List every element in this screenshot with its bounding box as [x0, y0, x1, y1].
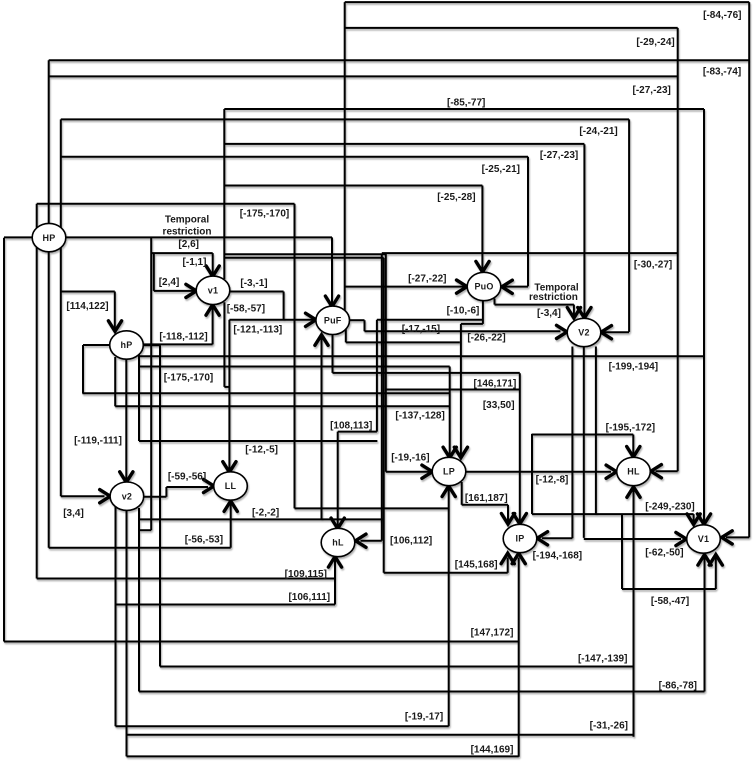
arrow into LL left — [204, 479, 215, 492]
wire v1 out a — [225, 253, 386, 255]
arrow into HL bottom — [627, 487, 640, 498]
node IP — [503, 524, 537, 552]
svg-text:HL: HL — [627, 467, 640, 477]
svg-text:restriction: restriction — [163, 227, 212, 238]
wire rail y60 — [49, 59, 750, 61]
svg-text:[-3,4]: [-3,4] — [537, 308, 561, 319]
wire into IP top b — [519, 373, 521, 522]
node hL — [321, 528, 355, 556]
svg-text:[-12,-5]: [-12,-5] — [245, 445, 278, 456]
svg-text:[-10,-6]: [-10,-6] — [447, 306, 480, 317]
wire to HL top — [532, 434, 633, 436]
svg-text:[-2,-2]: [-2,-2] — [252, 508, 279, 519]
svg-text:[-24,-21]: [-24,-21] — [579, 126, 617, 137]
wire rail y548 — [49, 547, 231, 549]
svg-text:[-118,-112]: [-118,-112] — [159, 332, 207, 343]
wire rail y204 — [37, 203, 295, 205]
svg-text:[-19,-17]: [-19,-17] — [405, 712, 443, 723]
wire into PuO top — [481, 186, 483, 272]
wire hP-bottom down b — [138, 347, 140, 441]
svg-text:PuF: PuF — [324, 316, 342, 326]
wire hP-bottom down — [114, 357, 116, 406]
arrow into LP top a — [443, 447, 456, 458]
wire rail y691 — [139, 691, 705, 693]
wire HP left — [4, 236, 32, 238]
wire into PuO left — [345, 286, 466, 288]
svg-text:[-147,-139]: [-147,-139] — [578, 654, 627, 665]
arrow into V2 top b — [578, 308, 591, 319]
wire LP-IP jog b — [462, 504, 508, 506]
svg-text:[-194,-168]: [-194,-168] — [533, 551, 582, 562]
wire into LP left — [386, 471, 431, 473]
wire HP to hP — [114, 292, 116, 332]
wire PuO-bottom down — [482, 301, 484, 324]
wire hP to LP c — [115, 405, 450, 407]
svg-text:[-29,-24]: [-29,-24] — [636, 37, 674, 48]
wire to IP bottom — [384, 572, 508, 574]
wire rail y578 — [37, 578, 335, 580]
arrow into v2 top — [120, 472, 133, 483]
arrow into HL right — [651, 465, 662, 478]
arrow into v1 top — [206, 266, 219, 277]
svg-text:[-3,-1]: [-3,-1] — [240, 278, 267, 289]
svg-text:[-27,-23]: [-27,-23] — [633, 85, 671, 96]
wire ch528 down — [527, 157, 529, 287]
wire v2-bottom down c — [115, 503, 117, 726]
svg-text:[147,172]: [147,172] — [471, 628, 514, 639]
arrow into hL bottom — [328, 557, 341, 568]
arrow into V1 bottom b — [709, 555, 722, 566]
wire v1 right out — [230, 291, 284, 293]
wire rail y28 — [345, 27, 678, 29]
wire ch48 down — [48, 60, 50, 547]
wire HP to hP h — [61, 291, 115, 293]
node v1 — [196, 276, 230, 304]
wire PuF up — [344, 2, 346, 315]
wire HP to PuF — [66, 236, 332, 238]
arrow into PuF left — [306, 313, 317, 326]
wire to V1 top — [532, 513, 694, 515]
wire ch294 down — [294, 204, 296, 509]
wire ch532 down — [531, 434, 533, 514]
svg-text:[161,187]: [161,187] — [465, 493, 508, 504]
node V1 — [687, 525, 721, 553]
arrow into LP top b — [454, 447, 467, 458]
wire v1 jog — [224, 386, 229, 388]
svg-text:PuO: PuO — [474, 282, 493, 292]
wire into HL right — [656, 470, 678, 472]
wire into IP right — [542, 537, 572, 539]
wire hP to LP a — [139, 366, 450, 368]
wire into LL bottom — [230, 502, 232, 548]
wire v1-bottom down — [223, 302, 225, 387]
wire hP right — [143, 344, 160, 346]
wire ch385 down — [385, 253, 387, 472]
wire rail y735 — [127, 734, 634, 736]
wire into HL top — [632, 435, 634, 456]
svg-text:v2: v2 — [122, 491, 132, 501]
wire into IP top a — [507, 505, 509, 523]
wire into V2 right — [603, 331, 630, 333]
svg-text:[106,111]: [106,111] — [288, 592, 330, 603]
arrow into V2 left — [557, 325, 568, 338]
wire into HL bottom — [633, 488, 635, 737]
wire HP-left down — [3, 238, 5, 642]
wire rail y604 — [116, 604, 335, 606]
node V2 — [567, 318, 601, 346]
svg-text:[-58,-57]: [-58,-57] — [227, 304, 265, 315]
svg-text:restriction: restriction — [529, 292, 578, 303]
svg-text:[-175,-170]: [-175,-170] — [240, 209, 289, 220]
arrow into V2 top a — [567, 308, 580, 319]
wire v2-bottom down b — [138, 508, 140, 692]
wire into V1 left — [584, 538, 681, 540]
wire to hL top — [338, 431, 377, 433]
wire hP to V1 — [139, 355, 704, 357]
arrow into LL bottom — [224, 501, 237, 512]
wire v2 right jog — [144, 496, 167, 498]
wire V2 to V1 — [583, 347, 585, 538]
wire v1 out b — [225, 257, 384, 259]
svg-text:v1: v1 — [208, 286, 218, 296]
wire PuF jog down — [364, 320, 366, 331]
svg-text:[-62,-50]: [-62,-50] — [645, 548, 683, 559]
svg-text:[-27,-23]: [-27,-23] — [540, 150, 578, 161]
wire rail y389 — [386, 389, 520, 391]
arrow into PuO left — [457, 280, 468, 293]
arrow into HL top — [627, 447, 640, 458]
svg-text:[-195,-172]: [-195,-172] — [606, 423, 655, 434]
wire hP left — [83, 344, 110, 346]
node v2 — [110, 482, 144, 510]
wire into v2 left — [61, 495, 105, 497]
arrow into IP bottom a — [501, 553, 514, 564]
wire into v1 top — [212, 253, 214, 275]
arrow into V1 bottom a — [698, 555, 711, 566]
svg-text:[3,4]: [3,4] — [63, 508, 84, 519]
wire into IP bottom a — [507, 558, 509, 573]
svg-text:[146,171]: [146,171] — [473, 379, 516, 390]
wire rail y157 — [61, 156, 528, 158]
wire into LL left — [166, 486, 208, 488]
wire into V1 top a — [693, 514, 695, 523]
wire v1 up — [223, 109, 225, 279]
wire rail y756 — [127, 755, 519, 757]
arrow into PuO top — [476, 261, 489, 272]
svg-text:[-27,-22]: [-27,-22] — [408, 274, 446, 285]
wire ch36 down — [36, 204, 38, 579]
arrow into V1 top a — [687, 514, 700, 525]
wire ch622 down — [621, 514, 623, 589]
svg-text:[-56,-53]: [-56,-53] — [185, 535, 223, 546]
wire into IP bottom b — [518, 558, 520, 757]
wire rail y666 — [160, 666, 634, 668]
arrow into IP bottom b — [512, 553, 525, 564]
svg-text:[-30,-27]: [-30,-27] — [634, 260, 672, 271]
svg-text:[-137,-128]: [-137,-128] — [395, 411, 444, 422]
svg-text:[-199,-194]: [-199,-194] — [609, 362, 658, 373]
svg-text:[108,113]: [108,113] — [330, 421, 372, 432]
wire rail y109 — [224, 108, 704, 110]
wire ch383 down — [383, 258, 385, 573]
svg-text:[145,168]: [145,168] — [455, 560, 498, 571]
wire rail y589 — [622, 588, 716, 590]
svg-text:[-25,-21]: [-25,-21] — [482, 164, 520, 175]
svg-text:[-58,-47]: [-58,-47] — [651, 596, 689, 607]
svg-text:[-31,-26]: [-31,-26] — [590, 721, 628, 732]
wire PuF bottomright — [346, 341, 460, 343]
wire v2-right jog — [165, 487, 167, 497]
wire to v1-left — [153, 253, 155, 291]
wire rail y144 — [224, 143, 584, 145]
svg-text:[33,50]: [33,50] — [483, 400, 515, 411]
arrow into V1 top b — [697, 514, 710, 525]
node LP — [432, 457, 466, 485]
wire PuO-bottomright stub — [494, 299, 496, 305]
svg-text:[-85,-77]: [-85,-77] — [447, 98, 485, 109]
wire rail y185 — [224, 185, 482, 187]
wire jog y530 — [139, 529, 151, 531]
wire into PuF bottom — [321, 335, 323, 519]
wire into V1 bottom a — [704, 558, 706, 692]
arrow into LL top — [223, 462, 236, 473]
wire rail y2 — [345, 1, 750, 3]
svg-text:IP: IP — [516, 534, 525, 544]
arrow into v2 left — [100, 490, 111, 503]
svg-text:[144,169]: [144,169] — [471, 745, 514, 756]
wire ch749 down — [748, 2, 750, 537]
wire ch677 down — [677, 28, 679, 471]
arrow into PuF top — [325, 296, 338, 307]
arrow into PuF bottom — [315, 335, 328, 346]
wire into hL top — [337, 432, 339, 528]
wire PuO staircase — [461, 323, 483, 325]
wire ch151 down — [150, 238, 152, 531]
arrow into V1 left — [676, 532, 687, 545]
wire PuF right out — [350, 319, 365, 321]
arrow into hL right — [356, 534, 367, 547]
svg-text:V2: V2 — [578, 328, 589, 338]
node LL — [214, 472, 248, 500]
wire V2 to IP — [571, 347, 573, 539]
arrow into HL left — [606, 465, 617, 478]
wire LP to HL — [466, 471, 611, 473]
svg-text:[-19,-16]: [-19,-16] — [391, 453, 429, 464]
svg-text:[-119,-111]: [-119,-111] — [74, 436, 122, 447]
wire into PuF top — [331, 237, 333, 305]
svg-text:[106,112]: [106,112] — [390, 536, 432, 547]
wire into PuF left — [229, 319, 313, 321]
wire rail y641 — [4, 641, 519, 643]
svg-text:[-12,-8]: [-12,-8] — [536, 475, 569, 486]
wire rail y76 — [49, 75, 678, 77]
node PuF — [316, 306, 350, 334]
wire into LP top b — [460, 324, 462, 457]
wire rail y441 — [139, 440, 377, 442]
svg-text:[-1,1]: [-1,1] — [183, 257, 207, 268]
wire ch381 down — [381, 254, 383, 540]
node hP — [110, 331, 144, 359]
node PuO — [467, 272, 501, 300]
arrow into IP top b — [513, 514, 526, 525]
wire into LP top a — [449, 367, 451, 457]
svg-text:[-83,-74]: [-83,-74] — [703, 67, 741, 78]
wire rail y726 — [116, 725, 449, 727]
wire PuF-bottom down — [332, 334, 334, 373]
arrow into LP bottom — [442, 486, 455, 497]
svg-text:LL: LL — [225, 481, 237, 491]
arrow into V2 right — [601, 326, 612, 339]
wire PuO to hL rail — [377, 319, 483, 321]
node HL — [617, 457, 651, 485]
wire rail y119 — [61, 118, 629, 120]
arrow into IP right — [537, 532, 548, 545]
arrow into hL top — [331, 518, 344, 529]
wire to v1 top — [151, 252, 213, 254]
wire hP to v2 — [125, 357, 127, 481]
svg-text:hL: hL — [332, 538, 344, 548]
wire ch160 down — [159, 345, 161, 666]
arrow into IP top a — [501, 514, 514, 525]
wire hP to v1 — [143, 343, 213, 345]
arrow into v1 bottom — [206, 305, 219, 316]
wire into V2 top b — [583, 144, 585, 316]
wire ch60 down — [60, 119, 62, 496]
svg-text:V1: V1 — [698, 534, 709, 544]
wire into v1 left — [154, 290, 195, 292]
wire into PuO right — [503, 286, 529, 288]
wire into V1 right — [726, 536, 749, 538]
arrow into LP left — [422, 465, 433, 478]
wire into LL top — [228, 320, 230, 471]
wire into V2 top a — [573, 305, 575, 317]
node HP — [32, 223, 66, 251]
svg-text:[114,122]: [114,122] — [66, 301, 108, 312]
wire to LP bottom — [295, 507, 450, 509]
svg-text:[-25,-28]: [-25,-28] — [437, 192, 475, 203]
wire PuF-bottomright down — [345, 329, 347, 342]
svg-text:hP: hP — [121, 340, 133, 350]
wire into V1 bottom b — [715, 558, 717, 590]
arrow into v1 left — [186, 284, 197, 297]
wire v2-bottom down a — [126, 511, 128, 757]
wire PuO to V2 — [495, 304, 574, 306]
svg-text:[-17,-15]: [-17,-15] — [402, 324, 440, 335]
wire hP to LP b — [82, 392, 449, 394]
wire into hL bottom — [334, 557, 336, 604]
svg-text:[2,6]: [2,6] — [178, 239, 199, 250]
wire v1-right down — [283, 292, 285, 320]
svg-text:[109,115]: [109,115] — [285, 569, 327, 580]
svg-text:[2,4]: [2,4] — [159, 277, 180, 288]
wire to LL bottom rail — [139, 518, 384, 520]
svg-text:LP: LP — [443, 467, 455, 477]
svg-text:HP: HP — [43, 233, 56, 243]
wire into V1 top b — [703, 109, 705, 523]
svg-text:[-249,-230]: [-249,-230] — [645, 502, 694, 513]
svg-text:[-175,-170]: [-175,-170] — [164, 373, 213, 384]
wire LP-IP jog a — [461, 482, 463, 505]
wire hP to v1 bottom — [212, 306, 214, 344]
wire rail y253 — [382, 252, 678, 254]
svg-text:[-59,-56]: [-59,-56] — [168, 472, 206, 483]
svg-text:[-84,-76]: [-84,-76] — [703, 10, 741, 21]
wire into hL right — [361, 540, 382, 542]
svg-text:Temporal: Temporal — [165, 215, 209, 226]
wire into V2 left — [365, 330, 561, 332]
svg-text:[-121,-113]: [-121,-113] — [233, 325, 282, 336]
wire hP-left down — [82, 345, 84, 393]
arrow into PuO right — [502, 280, 513, 293]
wire into V2 right — [628, 119, 630, 332]
wire V2 down — [595, 347, 597, 515]
svg-text:[-26,-22]: [-26,-22] — [467, 333, 505, 344]
wire ch377 down — [376, 320, 378, 432]
svg-text:[-86,-78]: [-86,-78] — [659, 681, 697, 692]
arrow into V1 right — [722, 531, 733, 544]
wire into LP bottom — [448, 487, 450, 727]
arrow into hP top — [108, 321, 121, 332]
wire PuF to IP — [333, 372, 520, 374]
